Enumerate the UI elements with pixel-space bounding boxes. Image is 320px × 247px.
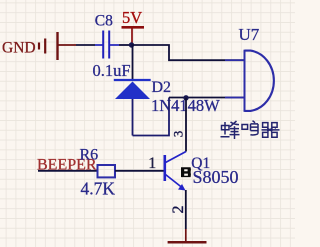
power port GND (top left) — [2, 32, 76, 60]
svg-text:S8050: S8050 — [193, 167, 239, 187]
svg-text:R6: R6 — [80, 147, 99, 164]
wire 5V node to buzzer top pin — [132, 45, 245, 60]
svg-text:4.7K: 4.7K — [81, 179, 116, 199]
wire R6 to Q1 base — [115, 170, 164, 172]
svg-text:D2: D2 — [152, 79, 172, 96]
wire emitter to ground — [185, 190, 187, 229]
resistor R6 — [98, 165, 116, 177]
svg-text:2: 2 — [170, 206, 187, 214]
buzzer U7 — [225, 50, 274, 112]
svg-text:U7: U7 — [239, 25, 260, 44]
wire GND to C8 — [76, 44, 95, 46]
diode D2 — [114, 80, 151, 136]
svg-text:C8: C8 — [95, 12, 113, 29]
transistor Q1 — [165, 152, 186, 191]
wire BEEPER to R6 — [38, 170, 97, 172]
svg-text:GND: GND — [2, 40, 36, 57]
svg-text:5V: 5V — [122, 8, 142, 27]
svg-text:1: 1 — [148, 155, 156, 172]
wire buzzer bottom pin — [169, 97, 244, 99]
power port 5V — [122, 8, 145, 45]
junction at 5V / C8 node — [129, 42, 134, 47]
svg-text:3: 3 — [170, 131, 185, 138]
comment 蜂鸣器 (buzzer) drawn glyphs — [221, 121, 280, 139]
wire 5V node down to diode cathode — [132, 45, 134, 79]
junction buzzer bottom / collector node — [183, 95, 188, 100]
wire C8 to junction — [119, 44, 132, 46]
svg-text:0.1uF: 0.1uF — [93, 61, 131, 80]
power port GND (bottom) — [168, 229, 207, 242]
wire collector drop — [185, 98, 187, 152]
pin marker B — [181, 167, 191, 177]
capacitor C8 — [95, 31, 119, 59]
wire diode anode detour to buzzer bottom net — [133, 98, 170, 136]
